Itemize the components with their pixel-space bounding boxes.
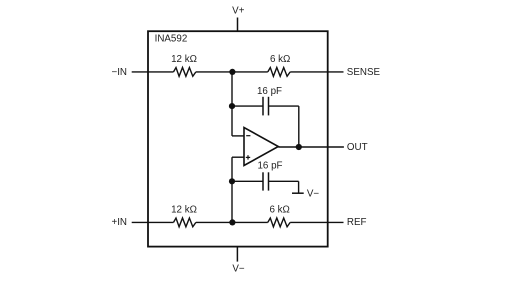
resistor R1 12 kOhm <box>174 68 196 77</box>
wire node A to C1 <box>232 105 263 107</box>
wire node B to R4 <box>232 221 267 223</box>
svg-text:SENSE: SENSE <box>347 67 381 78</box>
node A junction <box>229 69 235 75</box>
wire V- stub <box>236 247 238 262</box>
wire node A down to inverting input <box>231 72 233 136</box>
op-amp non-inverting input marker <box>246 156 250 158</box>
svg-text:OUT: OUT <box>347 142 368 153</box>
svg-text:16 pF: 16 pF <box>257 161 282 172</box>
wire to op-amp inverting input <box>232 135 244 137</box>
wire R1 to node A <box>196 71 233 73</box>
svg-text:−IN: −IN <box>111 67 127 78</box>
node output junction <box>296 144 302 150</box>
wire -IN lead <box>132 71 174 73</box>
svg-text:12 kΩ: 12 kΩ <box>171 54 197 65</box>
svg-text:V−: V− <box>307 189 320 200</box>
wire R4 to REF <box>290 221 343 223</box>
wire C1 to corner <box>269 105 299 107</box>
resistor R3 12 kOhm <box>174 218 196 227</box>
wire R2 to SENSE <box>290 71 343 73</box>
wire C1 corner down to output node <box>298 106 300 147</box>
svg-text:6 kΩ: 6 kΩ <box>269 205 289 216</box>
capacitor C1 left plate <box>262 97 264 116</box>
V- rail symbol <box>292 192 304 194</box>
junction node A / C1 <box>229 103 235 109</box>
svg-text:V−: V− <box>232 264 245 275</box>
wire V+ stub <box>237 18 239 32</box>
capacitor C2 left plate <box>262 172 264 190</box>
wire +IN lead <box>132 221 174 223</box>
wire op-amp output to OUT <box>278 146 344 148</box>
wire to op-amp non-inverting input <box>232 156 244 158</box>
wire C2 to corner <box>269 180 299 182</box>
svg-text:INA592: INA592 <box>155 34 188 45</box>
capacitor C2 right plate <box>268 172 270 190</box>
svg-text:V+: V+ <box>232 6 245 17</box>
capacitor C1 right plate <box>268 97 270 116</box>
svg-text:+IN: +IN <box>111 217 127 228</box>
svg-text:12 kΩ: 12 kΩ <box>171 205 197 216</box>
op-amp A1 <box>244 128 278 166</box>
op-amp inverting input marker <box>246 135 250 137</box>
wire C2 corner down to V- rail <box>298 181 300 193</box>
resistor R2 6 kOhm <box>268 68 290 77</box>
IC boundary box U1 INA592 <box>148 31 328 246</box>
node B junction <box>229 219 235 225</box>
resistor R4 6 kOhm <box>268 218 290 227</box>
wire node A to R2 <box>232 71 267 73</box>
wire node B to C2 <box>232 180 263 182</box>
wire node B up to non-inverting input <box>231 157 233 222</box>
svg-text:16 pF: 16 pF <box>257 86 282 97</box>
svg-text:6 kΩ: 6 kΩ <box>270 54 290 65</box>
wire R3 to node B <box>196 221 233 223</box>
svg-text:REF: REF <box>347 217 367 228</box>
junction node B / C2 <box>229 178 235 184</box>
